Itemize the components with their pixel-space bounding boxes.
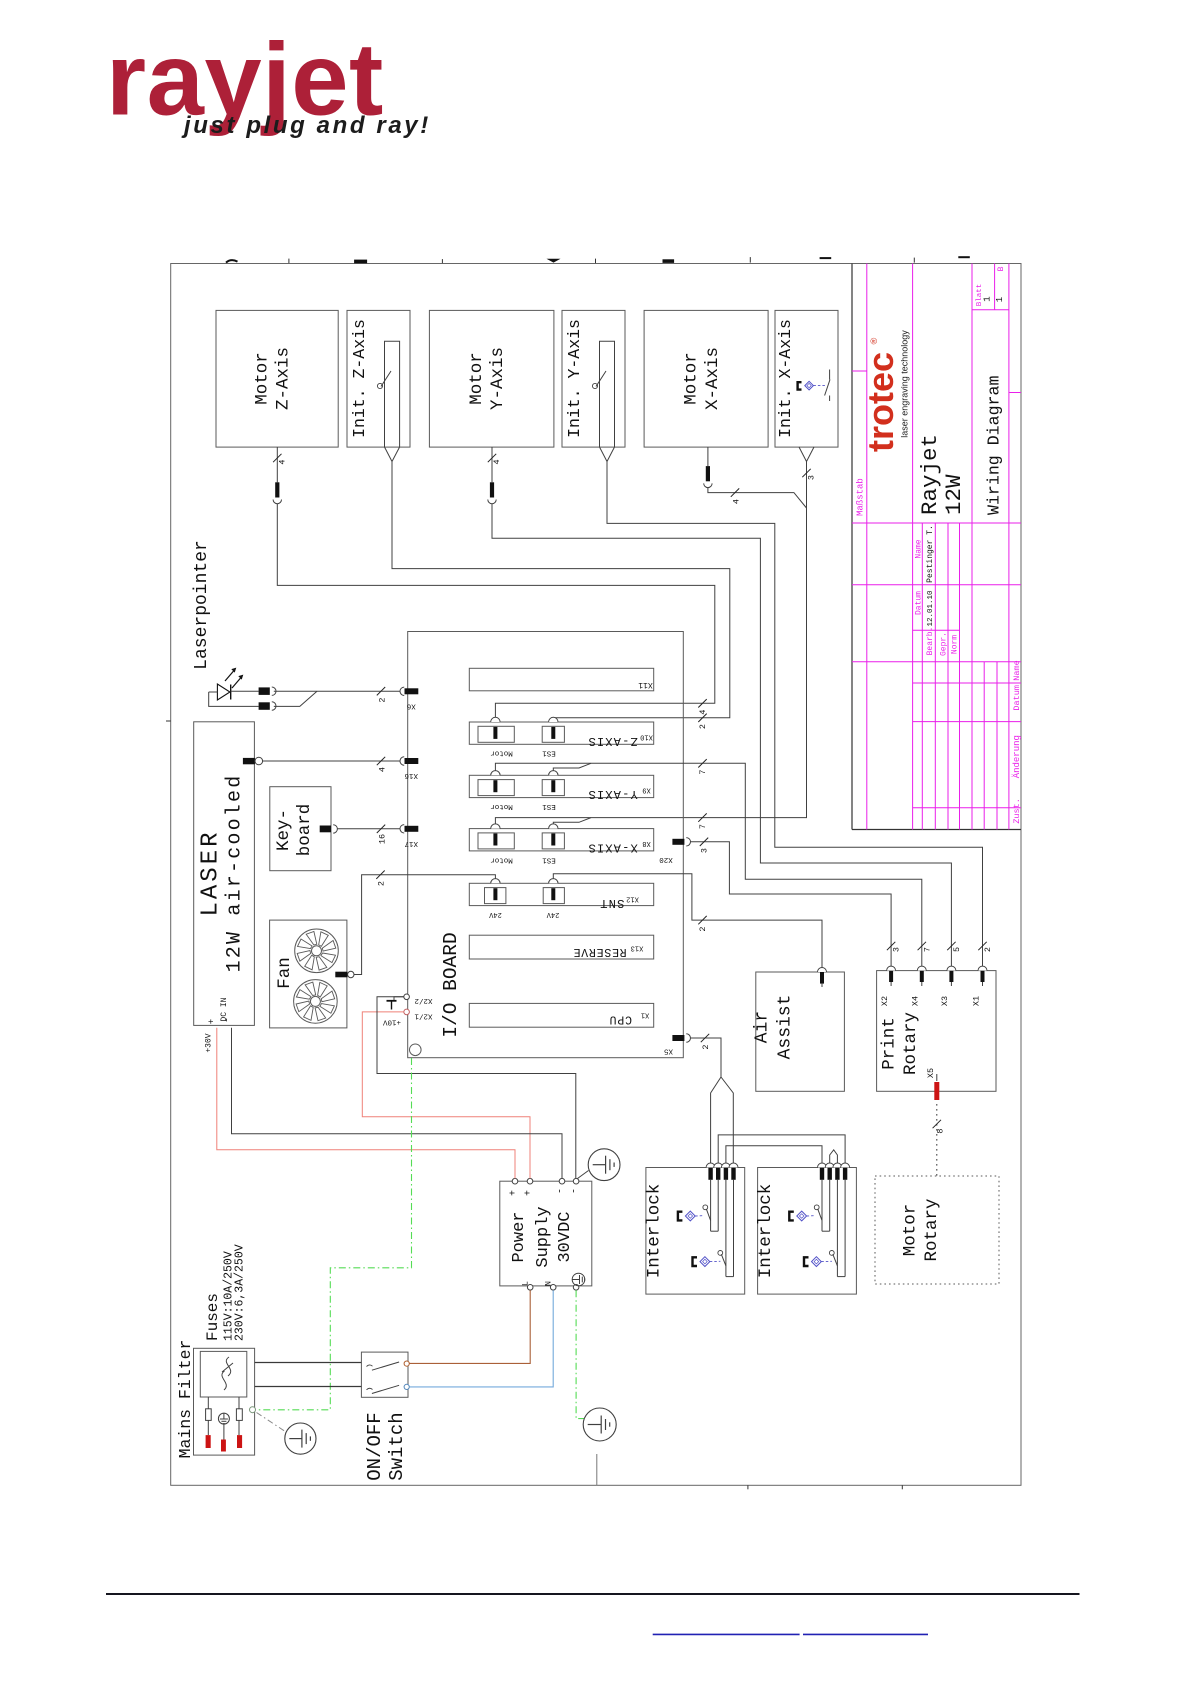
svg-text:Rayjet: Rayjet bbox=[917, 434, 943, 515]
svg-text:Interlock: Interlock bbox=[644, 1184, 664, 1279]
connector strip X11 bbox=[469, 668, 653, 691]
connector X16 bbox=[405, 758, 419, 764]
svg-text:ES1: ES1 bbox=[542, 855, 556, 863]
svg-text:Wiring Diagram: Wiring Diagram bbox=[985, 376, 1004, 515]
PE wire PS to ground bbox=[576, 1290, 584, 1418]
svg-text:ES1: ES1 bbox=[542, 802, 556, 810]
svg-text:Blatt: Blatt bbox=[976, 284, 984, 307]
svg-text:laser engraving technology: laser engraving technology bbox=[900, 330, 910, 438]
wire X10 row bumps bbox=[698, 699, 706, 707]
svg-text:trotec: trotec bbox=[860, 352, 901, 452]
connector strip X9 Y-AXIS bbox=[469, 775, 653, 797]
svg-text:X-Axis: X-Axis bbox=[703, 347, 723, 410]
box ON/OFF Switch bbox=[361, 1352, 408, 1397]
svg-text:X2: X2 bbox=[880, 996, 890, 1006]
svg-text:B: B bbox=[997, 266, 1006, 271]
box Init. X-Axis bbox=[775, 310, 838, 447]
box Fan bbox=[270, 920, 347, 1028]
svg-text:2: 2 bbox=[983, 947, 993, 952]
svg-text:LASER: LASER bbox=[198, 829, 225, 916]
svg-text:Init. Y-Axis: Init. Y-Axis bbox=[565, 319, 584, 438]
svg-text:4: 4 bbox=[278, 459, 288, 464]
frame stub line bbox=[596, 1454, 598, 1485]
connector X20 bbox=[672, 839, 684, 845]
connector strip X13 RESERVE bbox=[469, 935, 653, 959]
svg-text:230V:6,3A/250V: 230V:6,3A/250V bbox=[234, 1244, 247, 1341]
svg-text:Air: Air bbox=[753, 1011, 773, 1043]
svg-text:-: - bbox=[570, 1188, 581, 1194]
svg-text:4: 4 bbox=[378, 767, 388, 772]
svg-text:Datum: Datum bbox=[1012, 685, 1022, 711]
svg-text:Datum: Datum bbox=[915, 591, 924, 615]
svg-text:1: 1 bbox=[995, 297, 1005, 302]
interlock bus wire 2 bbox=[726, 1146, 822, 1163]
laserpointer pins bbox=[259, 687, 270, 695]
fuse left bbox=[206, 1409, 212, 1421]
Init Z switch bbox=[381, 371, 391, 387]
wire X12 24V to Air Assist bbox=[553, 874, 822, 968]
switch contacts bbox=[404, 1361, 409, 1366]
box Air Assist bbox=[756, 972, 845, 1091]
Interlock 1 switch 2 bbox=[718, 1251, 723, 1256]
Init Z slot bbox=[385, 341, 400, 447]
svg-text:Z-Axis: Z-Axis bbox=[274, 347, 294, 410]
svg-text:Rotary: Rotary bbox=[901, 1012, 921, 1075]
X12 24V plugs bbox=[485, 888, 506, 904]
X10 ES1 plug bbox=[542, 726, 564, 742]
svg-text:7: 7 bbox=[922, 947, 932, 952]
svg-text:board: board bbox=[295, 804, 315, 857]
svg-text:X1: X1 bbox=[641, 1010, 649, 1018]
wire keyboard to X17 bbox=[337, 828, 400, 830]
svg-text:+: + bbox=[509, 1190, 520, 1196]
svg-text:Y-Axis: Y-Axis bbox=[488, 347, 508, 410]
svg-text:2: 2 bbox=[698, 724, 708, 729]
connector Motor Z bbox=[275, 482, 279, 497]
svg-text:N: N bbox=[544, 1281, 554, 1286]
svg-text:Y-AXIS: Y-AXIS bbox=[587, 787, 637, 801]
svg-text:Fan: Fan bbox=[275, 957, 295, 989]
svg-text:4: 4 bbox=[732, 499, 742, 504]
title block grid (magenta) bbox=[866, 264, 868, 830]
svg-text:L: L bbox=[521, 1281, 531, 1286]
wire laser to X16 bbox=[263, 760, 401, 762]
wire Motor Y to IO board X9 bbox=[491, 447, 493, 482]
svg-text:Gepr.: Gepr. bbox=[940, 632, 949, 656]
wire Motor Z to IO board X10 bbox=[276, 447, 278, 482]
svg-text:X20: X20 bbox=[659, 855, 673, 863]
svg-text:Power: Power bbox=[510, 1211, 529, 1262]
svg-text:SNT: SNT bbox=[599, 896, 624, 910]
svg-text:X8: X8 bbox=[642, 839, 650, 847]
svg-text:ES1: ES1 bbox=[542, 749, 556, 757]
svg-text:8: 8 bbox=[935, 1128, 945, 1133]
svg-text:Motor: Motor bbox=[490, 855, 513, 863]
X9 Motor plug bbox=[478, 780, 514, 796]
svg-text:+10V: +10V bbox=[383, 1018, 402, 1026]
box LASER 12W air-cooled bbox=[194, 722, 255, 1026]
svg-text:Fuses: Fuses bbox=[204, 1293, 222, 1341]
+10V supply symbol bbox=[394, 997, 404, 1001]
wire N switch to PS (blue) bbox=[410, 1290, 554, 1387]
ground symbol at filter bbox=[285, 1423, 316, 1454]
svg-text:-: - bbox=[223, 1017, 234, 1023]
box Motor Rotary (dotted) bbox=[875, 1176, 999, 1284]
Init X switch bbox=[829, 370, 831, 380]
svg-text:X3: X3 bbox=[940, 996, 950, 1006]
PE wire I/O board to mains filter bbox=[258, 1058, 412, 1410]
svg-text:+: + bbox=[524, 1190, 535, 1196]
Interlock 2 slot 2 bbox=[836, 1180, 838, 1277]
title block outline bbox=[851, 264, 853, 830]
wire Init X to IO board X8 bbox=[799, 447, 807, 462]
svg-text:Assist: Assist bbox=[776, 995, 796, 1060]
svg-text:Norm: Norm bbox=[951, 635, 960, 654]
svg-text:X1: X1 bbox=[971, 996, 981, 1006]
Print Rotary pin X4 bbox=[920, 971, 924, 982]
svg-text:Switch: Switch bbox=[386, 1412, 408, 1480]
fan connector bbox=[335, 972, 347, 978]
svg-text:Motor: Motor bbox=[490, 749, 513, 757]
interlock bus wire 1 bbox=[718, 1135, 845, 1163]
svg-text:X6: X6 bbox=[406, 701, 416, 709]
box Power Supply 30VDC bbox=[500, 1181, 592, 1286]
svg-text:Änderung: Änderung bbox=[1012, 735, 1022, 778]
laser connector to X16 bbox=[243, 758, 255, 764]
wire Init Y bbox=[600, 447, 608, 462]
filter PE circle bbox=[250, 1407, 256, 1413]
svg-text:1: 1 bbox=[983, 296, 993, 301]
connector X6 bbox=[405, 688, 419, 694]
svg-text:+: + bbox=[207, 1019, 217, 1024]
connector strip X12 SNT bbox=[469, 883, 653, 905]
svg-text:2: 2 bbox=[378, 697, 388, 702]
svg-text:Key-: Key- bbox=[274, 809, 294, 851]
X9 ES1 plug bbox=[542, 780, 564, 796]
svg-text:7: 7 bbox=[698, 769, 708, 774]
svg-text:Motor: Motor bbox=[490, 802, 513, 810]
svg-text:RESERVE: RESERVE bbox=[573, 945, 627, 958]
svg-text:Motor: Motor bbox=[252, 352, 272, 405]
wire laser minus to PS bbox=[232, 1028, 563, 1179]
terminal X2/1 bbox=[404, 1009, 410, 1015]
box Print Rotary bbox=[877, 971, 996, 1092]
interlock 2 cable merge bbox=[830, 1150, 838, 1163]
wire X5 to interlocks bbox=[691, 1038, 722, 1077]
Init Y switch bbox=[596, 371, 606, 387]
keyboard connector bbox=[320, 826, 331, 833]
svg-text:CPU: CPU bbox=[609, 1012, 632, 1025]
fuse right bbox=[236, 1409, 242, 1421]
Interlock 1 switch 1 bbox=[703, 1205, 708, 1210]
Init X sensor diamond bbox=[805, 381, 814, 390]
svg-text:12.01.10: 12.01.10 bbox=[927, 590, 935, 627]
X8 ES1 plug bbox=[542, 833, 564, 849]
svg-text:12W: 12W bbox=[941, 474, 967, 515]
svg-text:2: 2 bbox=[701, 1044, 711, 1049]
svg-text:Maßstab: Maßstab bbox=[856, 478, 866, 516]
Init Y slot bbox=[600, 341, 615, 447]
footer links bbox=[653, 1633, 800, 1635]
laserpointer wire to X6 bbox=[274, 690, 400, 692]
box Motor X-Axis bbox=[644, 310, 768, 447]
laserpointer LED diode bbox=[217, 684, 230, 700]
LED arrows bbox=[225, 671, 234, 682]
wire Motor X bbox=[707, 447, 709, 466]
svg-text:2: 2 bbox=[698, 926, 708, 931]
Interlock 1 slot 2 bbox=[725, 1180, 727, 1277]
frame fold marks bottom edge bbox=[747, 1485, 749, 1489]
svg-text:30VDC: 30VDC bbox=[556, 1211, 575, 1262]
svg-text:+30V: +30V bbox=[205, 1033, 214, 1052]
svg-text:X2/1: X2/1 bbox=[414, 1011, 433, 1019]
PE diagonal to ground bbox=[257, 1413, 287, 1433]
box Key-board bbox=[270, 787, 331, 871]
svg-text:X13: X13 bbox=[631, 944, 644, 952]
Interlock 2 slot 1 bbox=[821, 1180, 823, 1231]
svg-text:X12: X12 bbox=[626, 895, 639, 903]
svg-text:Motor: Motor bbox=[682, 352, 702, 405]
svg-text:12W air-cooled: 12W air-cooled bbox=[224, 774, 247, 973]
PS PE symbol bbox=[572, 1273, 585, 1286]
svg-text:5: 5 bbox=[952, 947, 962, 952]
connector Motor Y bbox=[490, 482, 494, 497]
footer rule bbox=[106, 1593, 1080, 1595]
Interlock 1 slot 1 bbox=[710, 1180, 712, 1231]
connector Motor X bbox=[706, 466, 710, 481]
svg-text:X17: X17 bbox=[404, 839, 418, 847]
svg-text:Laserpointer: Laserpointer bbox=[192, 540, 212, 670]
Interlock 2 switch 1 bbox=[814, 1205, 819, 1210]
ground symbol bottom bbox=[583, 1408, 616, 1441]
box I/O BOARD bbox=[408, 632, 684, 1058]
box Init. Y-Axis bbox=[562, 310, 625, 447]
svg-text:3: 3 bbox=[700, 848, 710, 853]
connector X5 (I/O board) bbox=[672, 1035, 684, 1041]
svg-text:4: 4 bbox=[492, 459, 502, 464]
ground symbol at PS bbox=[578, 1171, 589, 1179]
svg-text:Supply: Supply bbox=[534, 1206, 553, 1267]
svg-text:X5: X5 bbox=[926, 1068, 936, 1078]
svg-text:Rotary: Rotary bbox=[922, 1198, 942, 1261]
svg-text:24V: 24V bbox=[488, 910, 501, 918]
connector strip X8 X-AXIS bbox=[469, 829, 653, 851]
dotted wire X5 to Motor Rotary bbox=[936, 1104, 938, 1176]
connector strip X10 Z-AXIS bbox=[469, 722, 653, 744]
svg-text:Name: Name bbox=[915, 539, 924, 558]
svg-text:7: 7 bbox=[698, 824, 708, 829]
svg-text:just plug and ray!: just plug and ray! bbox=[181, 112, 431, 139]
wire X2/2 shield to PS bbox=[377, 997, 576, 1179]
svg-text:Bearb.: Bearb. bbox=[926, 627, 935, 656]
Interlock 2 switch 2 bbox=[829, 1251, 834, 1256]
svg-text:X9: X9 bbox=[642, 786, 650, 794]
frame fold marks top edge bbox=[226, 260, 238, 262]
svg-text:Interlock: Interlock bbox=[756, 1184, 776, 1279]
svg-text:Motor: Motor bbox=[901, 1204, 921, 1257]
connector X17 bbox=[405, 826, 419, 832]
svg-text:Mains Filter: Mains Filter bbox=[176, 1340, 195, 1459]
svg-text:Pestinger T.: Pestinger T. bbox=[926, 525, 935, 583]
svg-text:3: 3 bbox=[892, 947, 902, 952]
Interlock 2 pins bbox=[820, 1168, 824, 1180]
box Init. Z-Axis bbox=[347, 310, 410, 447]
svg-text:X2/2: X2/2 bbox=[414, 996, 432, 1004]
box Mains Filter bbox=[194, 1348, 255, 1455]
svg-text:Init. X-Axis: Init. X-Axis bbox=[776, 319, 795, 438]
svg-text:X4: X4 bbox=[911, 996, 921, 1006]
svg-text:-: - bbox=[556, 1188, 567, 1194]
svg-text:X11: X11 bbox=[638, 680, 653, 689]
svg-text:ON/OFF: ON/OFF bbox=[364, 1412, 386, 1480]
box Motor Y-Axis bbox=[429, 310, 554, 447]
PS bottom terminals bbox=[527, 1285, 533, 1291]
wires filter to switch bbox=[255, 1362, 362, 1364]
wire X9 row to Print Rotary X4 bbox=[495, 763, 921, 966]
Print Rotary pin X3 bbox=[949, 971, 953, 982]
Interlock 1 pins bbox=[708, 1168, 712, 1180]
frame fold mark left edge bbox=[166, 720, 171, 722]
svg-text:Init. Z-Axis: Init. Z-Axis bbox=[350, 319, 369, 438]
svg-text:X10: X10 bbox=[640, 732, 653, 740]
X8 ES1 merge bbox=[553, 818, 591, 824]
filter red pins bbox=[206, 1435, 211, 1448]
filter leads bbox=[207, 1397, 209, 1409]
connector strip X1 CPU bbox=[469, 1003, 653, 1027]
PS top terminals bbox=[512, 1178, 518, 1184]
svg-text:X5: X5 bbox=[664, 1047, 674, 1055]
filter module bbox=[200, 1351, 247, 1397]
wire Init Z to IO board X10 ES1 bbox=[385, 447, 393, 462]
svg-text:Zust.: Zust. bbox=[1012, 798, 1022, 824]
svg-text:®: ® bbox=[869, 337, 879, 344]
wire L switch to PS (brown) bbox=[410, 1290, 531, 1363]
svg-text:2: 2 bbox=[377, 881, 387, 886]
svg-text:Motor: Motor bbox=[467, 352, 487, 405]
filter earth symbol bbox=[218, 1413, 229, 1424]
svg-text:16: 16 bbox=[378, 834, 388, 844]
LED wires bbox=[209, 691, 218, 693]
X10 Motor plug bbox=[478, 726, 514, 742]
X8 Motor plug bbox=[478, 833, 514, 849]
wire fan to X12 24V bbox=[354, 875, 495, 975]
terminal X2/2 bbox=[404, 994, 410, 1000]
svg-text:X16: X16 bbox=[404, 771, 418, 779]
box Motor Z-Axis bbox=[216, 310, 338, 447]
box Interlock 2 bbox=[758, 1168, 857, 1295]
svg-text:Z-AXIS: Z-AXIS bbox=[587, 734, 637, 748]
Init X sensor bracket bbox=[798, 382, 802, 389]
Air Assist pin bbox=[820, 972, 824, 984]
wire X20 to Print Rotary X2 bbox=[691, 842, 892, 966]
svg-text:Print: Print bbox=[879, 1017, 899, 1070]
Print Rotary pin X2 bbox=[889, 971, 893, 982]
svg-text:I/O BOARD: I/O BOARD bbox=[440, 932, 462, 1037]
Print Rotary pin X1 bbox=[981, 971, 985, 982]
box Interlock 1 bbox=[646, 1168, 745, 1295]
fan rotor bbox=[295, 929, 339, 973]
wire X2/1 +10V to PS bbox=[362, 1012, 530, 1179]
svg-text:3: 3 bbox=[807, 475, 817, 480]
svg-text:24V: 24V bbox=[546, 910, 559, 918]
wire +30V laser to PS bbox=[217, 1028, 515, 1179]
schematic frame border bbox=[171, 264, 1021, 1486]
Print Rotary X5 connector bbox=[934, 1082, 939, 1100]
svg-text:X-AXIS: X-AXIS bbox=[587, 840, 637, 854]
fan rotor bbox=[294, 980, 338, 1024]
svg-text:Name: Name bbox=[1012, 660, 1022, 680]
